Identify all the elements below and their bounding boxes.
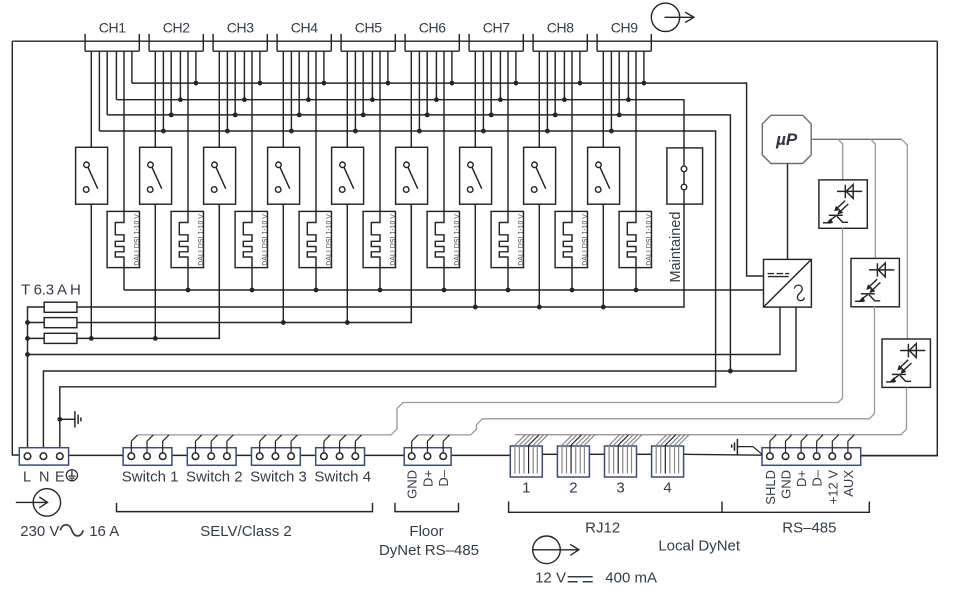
svg-text:CH3: CH3 xyxy=(227,20,254,36)
svg-text:DALI DSI 1-10 V: DALI DSI 1-10 V xyxy=(646,214,653,266)
svg-text:CH6: CH6 xyxy=(419,20,446,36)
svg-text:D–: D– xyxy=(436,469,451,486)
svg-text:+12 V: +12 V xyxy=(825,470,840,505)
svg-text:400 mA: 400 mA xyxy=(605,570,657,587)
svg-text:DALI DSI 1-10 V: DALI DSI 1-10 V xyxy=(262,214,269,266)
svg-text:230 V: 230 V xyxy=(20,523,59,540)
svg-text:DALI DSI 1-10 V: DALI DSI 1-10 V xyxy=(198,214,205,266)
svg-text:DALI DSI 1-10 V: DALI DSI 1-10 V xyxy=(390,214,397,266)
svg-text:1: 1 xyxy=(522,480,530,497)
svg-text:3: 3 xyxy=(616,480,624,497)
svg-text:DALI DSI 1-10 V: DALI DSI 1-10 V xyxy=(134,214,141,266)
svg-text:CH5: CH5 xyxy=(355,20,382,36)
svg-text:DyNet RS–485: DyNet RS–485 xyxy=(379,542,479,559)
svg-text:Switch 1: Switch 1 xyxy=(122,469,179,486)
svg-text:CH8: CH8 xyxy=(547,20,574,36)
svg-text:Floor: Floor xyxy=(409,523,443,540)
svg-text:CH9: CH9 xyxy=(611,20,638,36)
svg-text:GND: GND xyxy=(779,470,794,499)
svg-text:12 V: 12 V xyxy=(535,570,566,587)
svg-text:SELV/Class 2: SELV/Class 2 xyxy=(200,523,291,540)
svg-text:DALI DSI 1-10 V: DALI DSI 1-10 V xyxy=(326,214,333,266)
svg-text:16 A: 16 A xyxy=(89,523,119,540)
svg-text:DALI DSI 1-10 V: DALI DSI 1-10 V xyxy=(454,214,461,266)
svg-text:Switch 2: Switch 2 xyxy=(186,469,243,486)
svg-text:D+: D+ xyxy=(420,470,435,487)
svg-text:E: E xyxy=(55,469,65,485)
svg-text:RS–485: RS–485 xyxy=(782,520,836,537)
svg-text:CH2: CH2 xyxy=(163,20,190,36)
svg-text:AUX: AUX xyxy=(841,470,856,497)
svg-text:T 6.3 A H: T 6.3 A H xyxy=(21,282,81,299)
svg-text:CH4: CH4 xyxy=(291,20,318,36)
svg-text:DALI DSI 1-10 V: DALI DSI 1-10 V xyxy=(582,214,589,266)
svg-text:D+: D+ xyxy=(794,470,809,487)
svg-text:N: N xyxy=(39,469,49,485)
svg-text:Maintained: Maintained xyxy=(668,212,684,283)
svg-text:2: 2 xyxy=(569,480,577,497)
svg-text:GND: GND xyxy=(405,470,420,499)
svg-text:RJ12: RJ12 xyxy=(585,520,620,537)
svg-text:SHLD: SHLD xyxy=(763,470,778,505)
svg-text:Switch 4: Switch 4 xyxy=(314,469,371,486)
svg-text:L: L xyxy=(23,469,31,485)
svg-text:Switch 3: Switch 3 xyxy=(250,469,307,486)
svg-text:CH1: CH1 xyxy=(99,20,126,36)
svg-text:µP: µP xyxy=(775,130,798,149)
svg-text:D–: D– xyxy=(810,469,825,486)
svg-text:4: 4 xyxy=(663,480,671,497)
svg-text:Local DyNet: Local DyNet xyxy=(658,538,741,555)
svg-text:DALI DSI 1-10 V: DALI DSI 1-10 V xyxy=(518,214,525,266)
svg-text:CH7: CH7 xyxy=(483,20,510,36)
